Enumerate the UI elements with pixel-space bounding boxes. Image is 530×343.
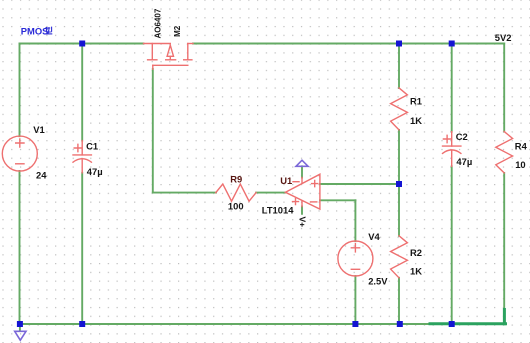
- junction node bottom R2: [397, 321, 403, 327]
- svg-text:1K: 1K: [410, 266, 422, 277]
- resistor R1: [391, 88, 408, 130]
- svg-text:2.5V: 2.5V: [368, 275, 388, 286]
- wire ground stub: [19, 324, 21, 331]
- resistor R2: [391, 236, 408, 278]
- voltage source V4: [338, 241, 373, 276]
- wire V1 bottom: [19, 171, 21, 324]
- svg-text:V4: V4: [368, 231, 380, 242]
- wire C1 top: [81, 44, 83, 141]
- junction node top R1: [396, 41, 402, 47]
- wire R9 to opamp output: [256, 192, 285, 194]
- svg-text:1K: 1K: [410, 115, 422, 126]
- svg-text:V+: V+: [297, 217, 307, 228]
- resistor R4: [496, 132, 513, 173]
- wire R2 bottom: [398, 278, 400, 324]
- wire R1 top: [398, 44, 400, 89]
- svg-text:PMOS: PMOS: [21, 25, 49, 36]
- op-amp U1: [286, 174, 320, 209]
- wire opamp V- pin: [301, 166, 303, 177]
- wire opamp V+ pin: [301, 207, 303, 214]
- wire gate vertical: [152, 69, 154, 193]
- wire bottom rail: [20, 323, 452, 325]
- svg-text:R2: R2: [410, 247, 422, 258]
- wire bottom rail overlap (doubled): [430, 322, 506, 325]
- wire C2 top: [451, 44, 453, 132]
- svg-text:R1: R1: [410, 95, 422, 106]
- svg-text:AO6407: AO6407: [153, 8, 162, 38]
- svg-text:LT1014: LT1014: [262, 205, 294, 216]
- junction node feedback: [396, 181, 402, 187]
- junction node top C1: [79, 41, 85, 47]
- transistor M2: [144, 44, 194, 70]
- wire -input horizontal: [320, 199, 355, 201]
- svg-text:10: 10: [515, 159, 525, 170]
- junction node bottom V4: [352, 321, 358, 327]
- svg-text:M2: M2: [173, 25, 182, 37]
- svg-text:24: 24: [36, 170, 47, 181]
- svg-text:5V2: 5V2: [495, 32, 512, 43]
- wire V1 top: [19, 44, 21, 137]
- voltage source V1: [2, 136, 37, 171]
- wire R4 bottom overlap (doubled): [503, 310, 506, 324]
- svg-text:C2: C2: [456, 131, 468, 142]
- wire R4 bottom: [503, 173, 505, 310]
- svg-text:R9: R9: [230, 174, 242, 185]
- junction node top C2: [449, 41, 455, 47]
- wire -input down to V4: [354, 200, 356, 241]
- junction node bottom ground: [17, 321, 23, 327]
- svg-text:U1: U1: [280, 175, 292, 186]
- ground: [15, 331, 26, 340]
- svg-text:47µ: 47µ: [87, 166, 103, 177]
- junction node bottom C1: [79, 321, 85, 327]
- wire top rail left: [20, 43, 144, 45]
- ground flag above op-amp: [296, 160, 308, 166]
- wire C1 bottom: [81, 173, 83, 324]
- resistor R9: [216, 184, 256, 201]
- svg-text:R4: R4: [515, 141, 528, 152]
- svg-text:47µ: 47µ: [456, 156, 472, 167]
- wire V4 bottom: [354, 276, 356, 324]
- wire R1-R2 middle: [398, 130, 400, 236]
- junction node bottom C2: [449, 321, 455, 327]
- svg-text:V1: V1: [33, 124, 44, 135]
- wire C2 bottom: [451, 166, 453, 324]
- capacitor C1: [73, 141, 91, 173]
- svg-text:100: 100: [228, 200, 244, 211]
- wire top rail right: [193, 43, 504, 45]
- svg-text:C1: C1: [86, 141, 98, 152]
- wire gate to R9: [153, 192, 216, 194]
- wire R4 top: [503, 44, 505, 132]
- capacitor C2: [443, 132, 461, 167]
- wire +input feedback: [320, 183, 399, 185]
